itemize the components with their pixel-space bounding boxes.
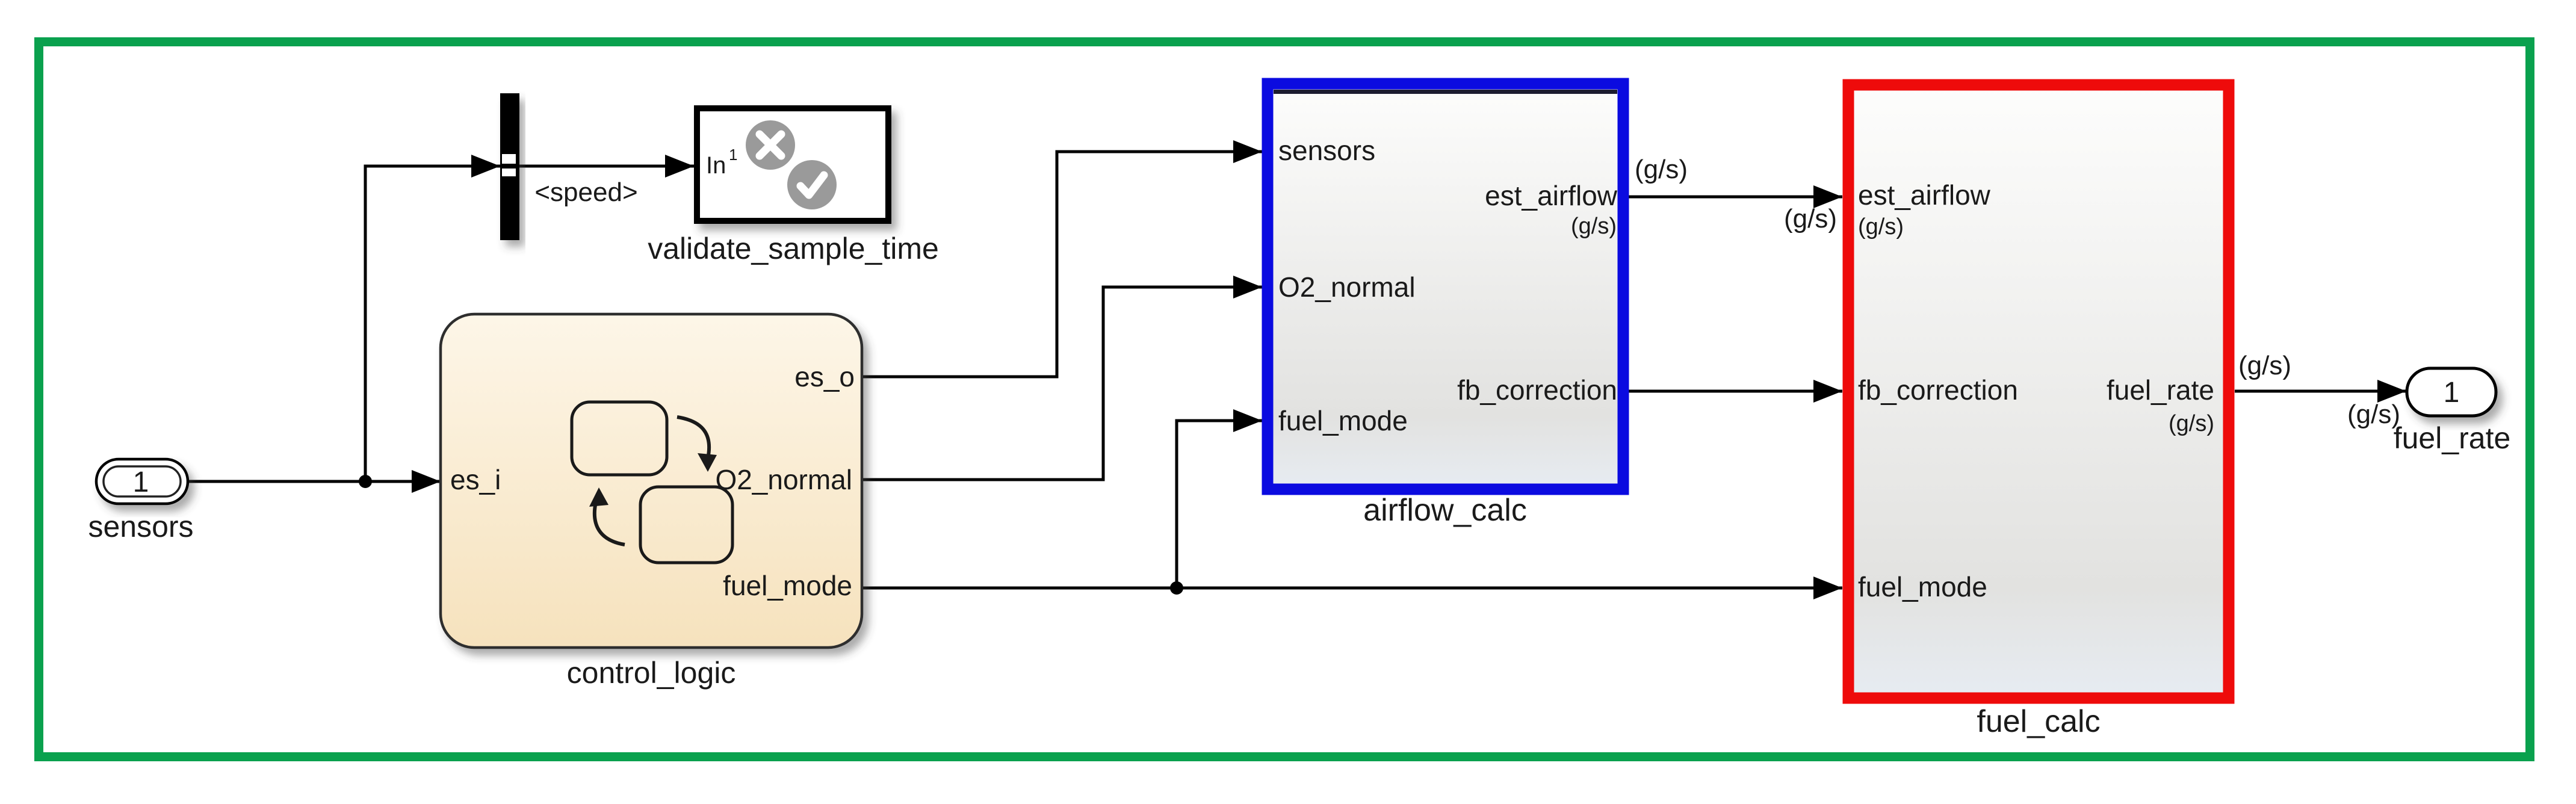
svg-text:fuel_rate: fuel_rate [2107,374,2214,406]
svg-text:est_airflow: est_airflow [1485,180,1618,211]
svg-text:fuel_mode: fuel_mode [723,570,852,601]
svg-text:1: 1 [2444,377,2460,409]
svg-text:(g/s): (g/s) [1635,155,1688,184]
svg-text:O2_normal: O2_normal [1278,271,1416,303]
svg-text:(g/s): (g/s) [1571,214,1617,239]
svg-text:es_o: es_o [794,361,855,392]
svg-text:O2_normal: O2_normal [715,464,852,495]
svg-text:fuel_rate: fuel_rate [2394,421,2511,455]
svg-text:In: In [706,152,726,179]
svg-text:(g/s): (g/s) [2169,411,2214,436]
svg-text:sensors: sensors [1278,135,1375,166]
svg-text:1: 1 [133,466,149,498]
svg-text:airflow_calc: airflow_calc [1363,493,1527,528]
svg-text:fuel_calc: fuel_calc [1977,704,2100,739]
svg-text:fuel_mode: fuel_mode [1858,571,1987,602]
svg-text:control_logic: control_logic [567,656,736,690]
svg-text:<speed>: <speed> [534,178,637,207]
svg-text:sensors: sensors [88,510,193,543]
svg-text:(g/s): (g/s) [1858,214,1904,240]
svg-text:fuel_mode: fuel_mode [1278,405,1408,436]
svg-text:fb_correction: fb_correction [1457,374,1617,406]
svg-text:validate_sample_time: validate_sample_time [648,232,939,265]
svg-text:fb_correction: fb_correction [1858,374,2018,406]
svg-text:1: 1 [729,146,737,164]
svg-text:es_i: es_i [450,464,501,495]
svg-text:(g/s): (g/s) [1784,204,1837,233]
svg-text:(g/s): (g/s) [2238,351,2291,380]
svg-text:est_airflow: est_airflow [1858,179,1991,211]
svg-text:(g/s): (g/s) [2347,400,2400,429]
